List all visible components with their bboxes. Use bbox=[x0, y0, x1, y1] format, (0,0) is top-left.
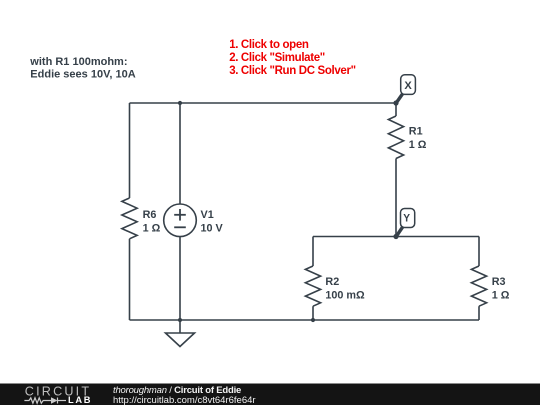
wire top horizontal bbox=[130, 102, 397, 104]
svg-text:100 mΩ: 100 mΩ bbox=[325, 289, 365, 301]
node flag Y pointer bbox=[397, 227, 404, 237]
node flag Y dot bbox=[393, 234, 398, 239]
voltage source V1 circle bbox=[164, 204, 197, 237]
svg-text:10 V: 10 V bbox=[201, 223, 224, 235]
svg-text:R3: R3 bbox=[492, 276, 506, 288]
wire R3 branch upper bbox=[478, 237, 480, 267]
svg-text:R6: R6 bbox=[143, 209, 157, 221]
footer logo diode triangle bbox=[51, 397, 58, 403]
svg-text:http://circuitlab.com/c8vt64r6: http://circuitlab.com/c8vt64r6fe64r bbox=[113, 395, 256, 405]
svg-text:LAB: LAB bbox=[68, 395, 92, 405]
svg-text:R2: R2 bbox=[325, 276, 339, 288]
svg-text:Y: Y bbox=[403, 213, 410, 225]
ground symbol bbox=[166, 333, 195, 347]
junction node dot (bottom wire / R2) bbox=[311, 318, 315, 322]
resistor R3 bbox=[471, 266, 486, 306]
wire left vertical upper (to R6) bbox=[129, 103, 131, 198]
footer bar bbox=[0, 384, 540, 405]
wire V1 branch upper bbox=[179, 103, 181, 204]
annotation text note1 bbox=[29, 56, 135, 80]
svg-text:3. Click "Run DC Solver": 3. Click "Run DC Solver" bbox=[229, 65, 355, 77]
wire node Y horizontal bbox=[313, 236, 479, 238]
footer logo wire squiggle with resistor and diode bbox=[24, 398, 66, 404]
svg-text:V1: V1 bbox=[201, 209, 214, 221]
svg-text:1 Ω: 1 Ω bbox=[143, 223, 161, 235]
node flag X dot bbox=[393, 100, 398, 105]
voltage source V1 minus sign bbox=[174, 226, 186, 228]
voltage source V1 plus sign bbox=[174, 209, 186, 227]
resistor R1 bbox=[388, 116, 403, 159]
svg-text:R1: R1 bbox=[409, 126, 423, 138]
resistor R2 bbox=[305, 266, 320, 306]
wire R1 branch lower (to node Y) bbox=[395, 159, 397, 237]
node flag X pointer bbox=[397, 93, 404, 103]
svg-text:2. Click "Simulate": 2. Click "Simulate" bbox=[229, 52, 325, 64]
svg-text:with R1 100mohm:: with R1 100mohm: bbox=[29, 56, 127, 68]
wire R2 branch upper bbox=[312, 237, 314, 267]
node flag Y box bbox=[401, 209, 415, 228]
svg-text:1. Click to open: 1. Click to open bbox=[229, 39, 309, 51]
resistor R6 bbox=[122, 198, 137, 239]
svg-text:1 Ω: 1 Ω bbox=[409, 139, 427, 151]
svg-text:X: X bbox=[404, 80, 412, 92]
wire left vertical lower (R6 to bottom) bbox=[129, 239, 131, 320]
junction node dot (top wire / V1) bbox=[178, 101, 182, 105]
svg-text:1 Ω: 1 Ω bbox=[492, 289, 510, 301]
junction node dot (bottom wire / ground) bbox=[178, 318, 182, 322]
wire V1 branch lower bbox=[179, 237, 181, 320]
wire R2 branch lower bbox=[312, 306, 314, 320]
annotation text note2 (red instructions) bbox=[229, 39, 355, 77]
wire ground stub bbox=[179, 320, 181, 333]
wire bottom horizontal bbox=[130, 319, 480, 321]
wire R3 branch lower bbox=[478, 306, 480, 320]
svg-text:Eddie sees 10V, 10A: Eddie sees 10V, 10A bbox=[30, 69, 135, 81]
node flag X box bbox=[401, 75, 416, 95]
wire R1 branch upper bbox=[395, 103, 397, 116]
